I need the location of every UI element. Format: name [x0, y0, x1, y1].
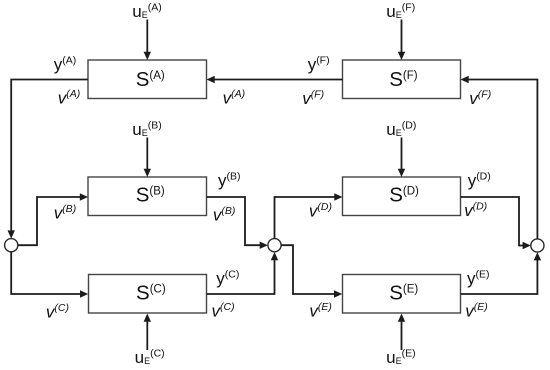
wire uE(A) input arrow into S(A) top — [144, 20, 151, 61]
wire S(B) output to middle junction — [207, 197, 268, 249]
wire left junction down to S(C) input — [11, 252, 88, 298]
wire left junction to S(B) input — [18, 193, 88, 245]
block S(D) — [343, 177, 461, 216]
block S(C) — [89, 275, 207, 314]
summing junction right — [531, 239, 544, 252]
wire S(E) output up to right junction — [461, 252, 542, 294]
summing junction left — [5, 239, 18, 252]
wire middle junction up to S(D) input — [275, 193, 343, 238]
summing junction middle — [268, 239, 281, 252]
block S(B) — [88, 177, 207, 216]
wire uE(F) input arrow into S(F) top — [398, 20, 405, 61]
wire middle junction to S(E) input — [281, 245, 342, 298]
block S(F) — [343, 60, 461, 99]
wire uE(C) input arrow into S(C) bottom — [144, 314, 151, 351]
wire S(C) output up to middle junction — [207, 252, 279, 294]
wire uE(D) input arrow into S(D) top — [398, 138, 405, 178]
wire uE(B) input arrow into S(B) top — [144, 138, 151, 178]
wire F output to S(A) right input — [207, 76, 343, 83]
wire S(D) output to right junction — [461, 197, 531, 249]
wire uE(E) input arrow into S(E) bottom — [398, 314, 405, 351]
block S(E) — [343, 275, 461, 314]
wire right junction up and into S(F) right input — [461, 76, 538, 239]
block S(A) — [88, 60, 207, 99]
wire S(A) output left down to left junction — [8, 80, 89, 239]
